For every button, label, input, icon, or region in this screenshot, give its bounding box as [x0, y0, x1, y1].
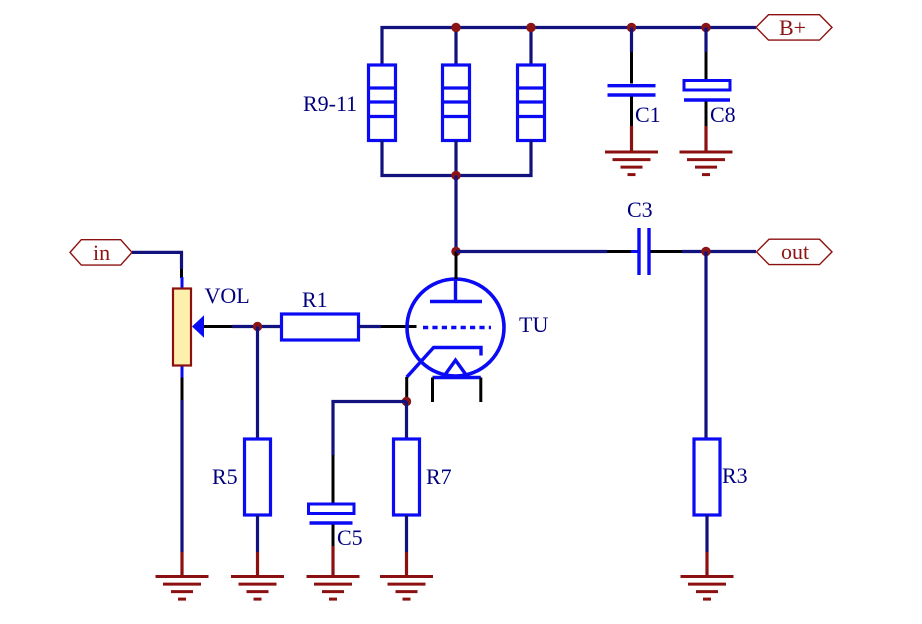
resistor R9 (left of R9-11 bank)	[369, 65, 396, 141]
label R7	[426, 464, 452, 489]
wire anode node to C3	[456, 250, 638, 253]
junction rail-R10	[451, 23, 460, 32]
resistor R1	[282, 314, 359, 340]
resistor R10 (middle of R9-11 bank)	[443, 65, 470, 141]
svg-text:R5: R5	[212, 464, 238, 489]
tube TU cathode	[407, 348, 481, 378]
svg-text:out: out	[781, 239, 809, 264]
capacitor C5 (polarized)	[309, 504, 355, 546]
svg-text:B+: B+	[779, 15, 806, 40]
label C1	[635, 102, 661, 127]
wire cathode node to R7	[405, 402, 408, 440]
port out	[757, 239, 833, 265]
label VOL	[205, 283, 250, 308]
label R9-11	[303, 91, 357, 116]
svg-text:C1: C1	[635, 102, 661, 127]
wire C3 to out node	[651, 250, 757, 253]
junction rail-R11	[526, 23, 535, 32]
label TU	[519, 312, 548, 337]
tube TU grid (dotted)	[423, 326, 491, 329]
label R3	[722, 463, 748, 488]
junction rail-C1	[627, 23, 636, 32]
ground for VOL	[156, 552, 209, 599]
junction cathode node	[402, 397, 411, 406]
wire R1 to tube grid	[359, 325, 417, 328]
wire bus to anode node	[454, 176, 457, 252]
svg-text:R3: R3	[722, 463, 748, 488]
wire pot bottom to ground	[181, 378, 184, 553]
wire R7 bottom	[405, 515, 408, 552]
wire R11 top pin	[529, 28, 532, 66]
svg-text:VOL: VOL	[205, 283, 250, 308]
ground for R7	[380, 552, 433, 599]
resistor R11 (right of R9-11 bank)	[518, 65, 545, 141]
svg-text:R7: R7	[426, 464, 452, 489]
tube TU heater	[433, 360, 481, 402]
svg-text:in: in	[93, 240, 110, 265]
potentiometer VOL	[173, 277, 204, 378]
junction anode node	[451, 247, 460, 256]
junction rail-C8	[701, 23, 710, 32]
junction wiper-R5-R1	[253, 322, 262, 331]
svg-text:R1: R1	[302, 287, 328, 312]
wire cathode pin	[405, 377, 408, 401]
wire R3 bottom	[705, 515, 708, 552]
wire R5 top	[256, 327, 259, 440]
resistor R3	[694, 439, 720, 515]
wire wiper to R1 node	[204, 325, 281, 328]
capacitor C8 (polarized)	[684, 28, 730, 128]
port in	[70, 240, 132, 265]
ground for R5	[231, 552, 284, 599]
capacitor C3	[631, 228, 657, 275]
wire out node to R3	[704, 252, 707, 440]
label C5	[337, 525, 363, 550]
ground for C5	[307, 546, 360, 599]
port B+	[756, 15, 832, 40]
tube TU envelope	[407, 279, 504, 376]
wire in to pot top	[132, 252, 182, 278]
wire R5 bottom	[256, 515, 259, 552]
label C8	[710, 102, 736, 127]
ground for R3	[681, 552, 734, 599]
svg-text:C8: C8	[710, 102, 736, 127]
resistor R5	[245, 439, 271, 515]
wire resistor-bank bottom bus	[382, 141, 531, 176]
wire R10 top pin	[454, 28, 457, 66]
tube TU anode	[430, 252, 482, 303]
wire R10 bottom pin	[454, 141, 457, 176]
label C3	[627, 197, 653, 222]
resistor R7	[394, 439, 420, 515]
label R1	[302, 287, 328, 312]
label R5	[212, 464, 238, 489]
capacitor C1	[608, 28, 656, 128]
wire cathode node to C5	[333, 402, 407, 505]
wire B+ rail	[382, 28, 756, 66]
junction out node	[701, 247, 710, 256]
svg-text:TU: TU	[519, 312, 548, 337]
ground for C1	[605, 126, 658, 175]
svg-text:C3: C3	[627, 197, 653, 222]
svg-text:R9-11: R9-11	[303, 91, 357, 116]
ground for C8	[680, 126, 733, 175]
junction bus-anode	[451, 171, 460, 180]
svg-text:C5: C5	[337, 525, 363, 550]
